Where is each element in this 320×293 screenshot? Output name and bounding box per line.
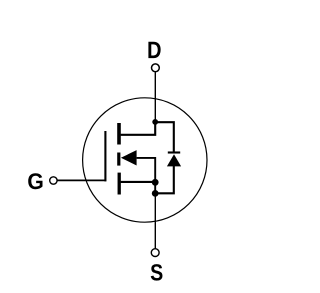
node drain junction dot <box>152 119 158 125</box>
wire drain lead <box>154 72 156 122</box>
terminal S circle <box>151 249 159 257</box>
mosfet bottom channel segment <box>118 173 121 195</box>
terminal G circle <box>50 177 57 184</box>
mosfet top channel segment <box>117 123 121 145</box>
diode body triangle <box>167 154 181 166</box>
label D (drain) <box>148 42 160 58</box>
wire gate lead <box>58 179 107 181</box>
wire source branch <box>121 181 156 183</box>
mosfet gate bar <box>104 131 106 181</box>
mosfet body arrow <box>121 150 137 165</box>
transistor body circle <box>83 98 207 222</box>
wire diode anode to source node <box>155 165 174 193</box>
wire arrow to source node <box>137 158 156 182</box>
wire between source junction dots <box>154 182 156 193</box>
label S (source) <box>151 264 163 281</box>
diode cathode bar <box>168 151 180 153</box>
label G (gate) <box>28 173 42 189</box>
terminal D circle <box>152 64 160 72</box>
node source junction dot lower <box>152 190 159 197</box>
wire drain to channel <box>121 122 156 135</box>
wire source lead <box>154 193 156 248</box>
node source junction dot upper <box>152 179 159 186</box>
mosfet middle channel segment <box>117 153 120 166</box>
wire drain to diode cathode <box>155 122 174 152</box>
